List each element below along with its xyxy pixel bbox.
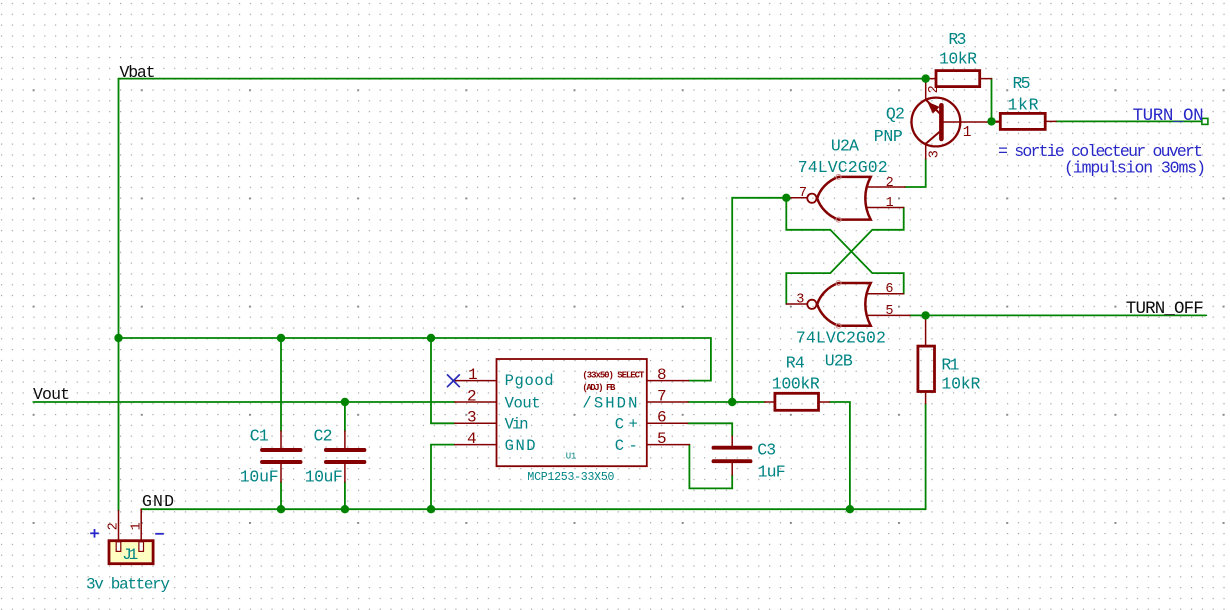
svg-text:C1: C1 [250,427,269,446]
svg-text:10kR: 10kR [941,375,980,394]
pin C1 top [280,431,282,449]
svg-text:GND: GND [505,437,536,455]
wire C2 top [344,402,346,431]
pin R4 left [765,401,775,403]
svg-text:74LVC2G02: 74LVC2G02 [798,158,888,177]
svg-text:2: 2 [467,387,477,405]
svg-text:5: 5 [657,430,667,448]
svg-text:U2A: U2A [831,137,859,156]
svg-text:6: 6 [885,282,893,297]
svg-text:Vout: Vout [33,385,70,404]
svg-text:1: 1 [468,366,478,384]
svg-text:3: 3 [467,409,477,427]
pin R5 left [992,120,1001,122]
pin C2 top [344,431,346,449]
pin C2 bottom [344,464,346,483]
NOR gate U2B [807,281,870,329]
pin U1.8 [647,380,689,382]
pin U1.2 [455,401,497,403]
node Vbat rail left [114,334,122,342]
pin Q2 collector right [943,121,1000,123]
pin J1.1 [140,509,142,541]
pin U2B.6 [867,293,904,295]
pin R1 top [925,315,927,346]
svg-text:6: 6 [657,409,667,427]
svg-text:U2B: U2B [825,351,853,370]
svg-text:(impulsion 30ms): (impulsion 30ms) [1064,159,1206,178]
wire C2 bottom [344,482,346,509]
pin C1 bottom [280,464,282,483]
node R3/R5/Q2 collector [987,117,995,125]
wire down to U1 pin 8 [689,338,711,381]
wire Vbat distribution rail y=338 [119,337,711,339]
pin R4 right [819,401,830,403]
wire U1 pin 4 to GND rail [431,445,455,510]
svg-text:U1: U1 [566,452,577,462]
wire Vout horizontal [33,401,454,403]
resistor R4 [775,393,819,410]
node SHDN/R4/C-wire [728,398,736,406]
wire C1 bottom [280,482,282,509]
svg-text:74LVC2G02: 74LVC2G02 [796,329,886,348]
node pin4 GND [427,505,435,513]
svg-text:GND: GND [142,492,174,511]
svg-text:100kR: 100kR [772,375,820,394]
pin U1.7 [647,401,688,403]
wire C1 top [280,338,282,431]
battery plus [90,529,99,538]
svg-text:3: 3 [796,293,804,308]
pin R5 right [1045,120,1056,122]
svg-text:(ADJ) FB: (ADJ) FB [582,383,616,393]
node R4 GND [846,505,854,513]
node U2A output [782,194,790,202]
svg-text:1: 1 [886,196,894,211]
wire TURN_OFF [910,314,1206,316]
wire Vbat horizontal rail [119,78,926,80]
pin C3 top [731,436,733,447]
no-connect X on U1 pin1 [447,374,460,387]
wire R5 right to TURN_ON [1056,120,1202,122]
node C1 top [277,334,285,342]
svg-text:2: 2 [107,522,122,530]
pin U2A.7 [786,197,807,199]
pin C3 bottom [731,463,733,476]
pin Q2 emitter top [925,79,927,100]
svg-text:2: 2 [927,85,942,93]
resistor R5 [1000,113,1045,129]
svg-text:Pgood: Pgood [505,372,554,390]
resistor R3 [936,71,980,87]
node C1 GND [277,505,285,513]
capacitor C2 [326,450,365,462]
global label square TURN_ON [1202,118,1208,124]
wire Vbat left vertical [118,79,120,511]
battery minus [155,533,164,535]
resistor R1 [918,346,935,391]
IC U1 MCP1253 box [497,359,647,466]
pin U1.5 [647,444,690,446]
wire U1 pin6 to C3 top [688,423,733,436]
node C2/Vout [341,398,349,406]
battery J1 [109,541,153,564]
node TURN_OFF/R1 [921,311,929,319]
pin Q2 pin3 bottom [925,144,927,159]
svg-text:PNP: PNP [874,127,903,146]
svg-text:Q2: Q2 [886,104,905,123]
wire R3 right to R5 node [991,79,993,122]
wire U2A out cross to U2B in [786,198,903,294]
svg-text:1: 1 [963,125,972,141]
svg-text:/SHDN: /SHDN [582,394,637,412]
svg-text:R4: R4 [786,354,805,373]
svg-text:Vbat: Vbat [120,63,156,82]
transistor Q2 [912,98,961,147]
pin U2A.1 [867,207,904,209]
svg-text:J1: J1 [122,546,138,564]
svg-text:MCP1253-33X50: MCP1253-33X50 [527,471,614,484]
svg-text:7: 7 [657,387,667,405]
svg-text:R1: R1 [941,355,959,374]
svg-text:2: 2 [886,176,894,191]
node Vbat/R3/Q2 [922,74,930,82]
svg-text:4: 4 [467,430,477,448]
svg-text:Vout: Vout [505,394,541,412]
svg-text:Vin: Vin [505,416,529,434]
capacitor C1 [262,450,301,462]
svg-text:1uF: 1uF [758,463,786,482]
svg-text:TURN_ON: TURN_ON [1133,106,1204,126]
svg-text:7: 7 [799,186,807,201]
pin U1.3 [455,422,497,424]
svg-text:5: 5 [885,304,893,319]
svg-text:1: 1 [129,522,144,530]
wire to U1 pin 3 Vin [431,338,455,423]
svg-text:1kR: 1kR [1008,95,1039,114]
node C2 GND [341,505,349,513]
wire GND rail [141,508,925,510]
wire Q2 collector to U2A pin2 [905,159,926,187]
svg-text:10uF: 10uF [240,468,279,487]
svg-text:8: 8 [657,366,667,384]
svg-text:C3: C3 [757,441,776,460]
svg-text:(33x50) SELECT: (33x50) SELECT [582,370,645,380]
pin R1 bottom [925,392,927,404]
pin U2A.2 [867,186,906,188]
pin U2B.5 [867,314,911,316]
svg-text:10kR: 10kR [939,50,977,69]
wire R4 right to GND [829,402,850,509]
svg-text:R5: R5 [1013,74,1031,93]
pin U1.4 [455,444,497,446]
pin U1.1 [455,380,497,382]
capacitor C3 [714,448,751,462]
pin U1.6 [647,422,688,424]
svg-text:R3: R3 [948,30,966,49]
svg-text:TURN_OFF: TURN_OFF [1126,299,1204,319]
wire U1 pin7 /SHDN to R4 [688,401,765,403]
svg-text:3: 3 [927,150,942,158]
pin J1.2 [118,511,120,541]
svg-text:10uF: 10uF [305,468,343,487]
wire U2A pin1 cross to U2B out [786,208,903,305]
wire R1 bottom to GND [925,404,927,510]
pin R3 right [980,78,992,80]
pin R3 left [926,78,936,80]
svg-text:3v battery: 3v battery [86,576,170,594]
node Vin branch [427,334,435,342]
pin U2B.3 [786,303,807,305]
svg-text:C2: C2 [314,427,333,446]
wire SHDN node up-left long vertical [732,198,786,402]
NOR gate U2A [807,174,870,222]
wire U1 pin5 to C3 bottom [689,445,732,489]
